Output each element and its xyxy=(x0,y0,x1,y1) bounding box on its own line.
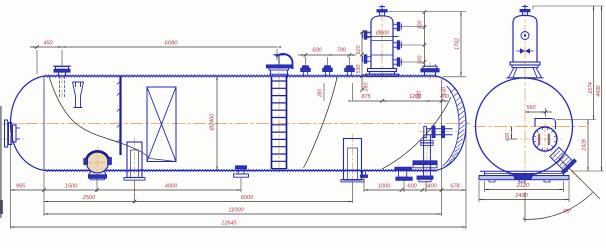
end column head xyxy=(513,15,537,22)
bottom manhole centerlines xyxy=(85,162,110,164)
centerline inclined nozzle 45deg xyxy=(545,145,580,180)
ladder rails xyxy=(271,76,273,169)
nozzle B cover xyxy=(423,66,437,69)
centerline big nozzle B xyxy=(429,62,431,82)
end manhole circle xyxy=(533,127,557,151)
saddle base plate xyxy=(479,176,569,180)
top nozzle N2 xyxy=(302,72,304,77)
svg-text:300: 300 xyxy=(418,21,424,30)
end manhole hinge xyxy=(538,134,541,145)
end column support stand xyxy=(509,68,542,78)
shell bottom hatch ticks xyxy=(46,169,437,172)
centerline sump2 xyxy=(352,134,354,184)
centerline head nozzle lower xyxy=(2,138,24,140)
dim diameter 2400 xyxy=(216,76,218,171)
ext x349 xyxy=(352,183,354,203)
centerline drain pipe right xyxy=(426,128,428,188)
svg-text:4000: 4000 xyxy=(165,184,178,190)
dim 1200 xyxy=(382,100,426,102)
wire mesh demister frame xyxy=(147,87,176,162)
column top nozzle xyxy=(379,12,381,16)
end column shell xyxy=(512,22,514,62)
end column sight glass xyxy=(521,32,529,40)
svg-text:2120: 2120 xyxy=(516,183,530,189)
dim 450 xyxy=(30,46,62,48)
centerline column vertical xyxy=(381,8,383,80)
column vent valve xyxy=(381,5,383,10)
drain pipe coupling xyxy=(421,140,433,142)
centerline head nozzle upper xyxy=(2,123,24,125)
main horizontal centerline side view xyxy=(4,123,470,125)
svg-text:11000: 11000 xyxy=(228,208,244,214)
dim row3 xyxy=(44,213,442,215)
svg-text:2490: 2490 xyxy=(514,193,528,199)
sump1 inner lining xyxy=(131,150,139,178)
vessel shell bottom line xyxy=(44,170,436,172)
ladder rungs xyxy=(272,81,287,169)
bottom manhole base xyxy=(89,175,107,178)
svg-text:45°: 45° xyxy=(563,209,572,215)
sump1 base flange xyxy=(124,178,145,181)
dim 45 vertical xyxy=(524,192,526,222)
svg-text:1200: 1200 xyxy=(409,94,421,100)
baffle plate xyxy=(119,76,121,155)
svg-text:Ø2400: Ø2400 xyxy=(210,113,216,132)
inclined nozzle body xyxy=(548,146,576,174)
dim 450-6080 extension lines xyxy=(36,50,38,74)
centerline nozzle A1 xyxy=(61,62,63,98)
shell top hatch ticks xyxy=(46,75,437,78)
manhole M neck xyxy=(270,70,272,76)
svg-text:1428: 1428 xyxy=(582,139,588,151)
outlet compartment curve xyxy=(382,97,451,169)
svg-text:1792: 1792 xyxy=(455,38,461,50)
column right nozzle R3 xyxy=(393,59,397,61)
column right nozzle R2 xyxy=(393,42,397,44)
dim 2120 xyxy=(485,189,564,191)
svg-text:Ø600: Ø600 xyxy=(375,31,389,37)
svg-text:1500: 1500 xyxy=(65,184,78,190)
dim 600 xyxy=(298,54,328,56)
inlet deflector curve xyxy=(49,77,176,162)
end column base flange xyxy=(510,62,540,65)
svg-text:400: 400 xyxy=(505,133,511,142)
svg-text:6080: 6080 xyxy=(165,41,179,47)
sump2 box xyxy=(344,139,362,181)
svg-text:4435: 4435 xyxy=(596,85,602,97)
side nozzle end flange xyxy=(424,126,427,137)
svg-text:678: 678 xyxy=(450,184,460,190)
centerline sump1 xyxy=(134,138,136,182)
dim 4435 xyxy=(601,6,603,171)
ext x240 xyxy=(240,178,242,192)
svg-text:280: 280 xyxy=(318,89,324,99)
ext x425 xyxy=(425,182,427,192)
ext x403 xyxy=(403,181,405,193)
column base flange xyxy=(368,69,397,72)
bottom manhole end-on xyxy=(513,174,533,179)
ext x44 xyxy=(43,172,45,216)
centerline end-view manhole vertical xyxy=(544,123,546,157)
centerline side nozzle right horizontal xyxy=(419,131,457,133)
ext x364 xyxy=(363,178,365,192)
drain pipe bottom flange xyxy=(417,176,433,179)
dim 875 xyxy=(353,100,383,102)
svg-text:280: 280 xyxy=(364,83,370,93)
column left nozzle L2 xyxy=(367,56,371,58)
svg-text:700: 700 xyxy=(337,48,347,54)
dim row1 left xyxy=(11,189,242,191)
dim row1 right xyxy=(364,189,466,191)
svg-text:965: 965 xyxy=(16,184,26,190)
svg-text:1674: 1674 xyxy=(588,82,594,94)
svg-text:400: 400 xyxy=(440,94,449,100)
right head xyxy=(436,76,466,171)
column internal line 2 xyxy=(371,54,393,56)
dim 1792 xyxy=(460,12,462,77)
ext x10 xyxy=(10,135,12,229)
side nozzle flange 2 xyxy=(442,126,445,138)
left head nozzle flanges xyxy=(5,120,8,147)
right head section hatch xyxy=(446,88,465,166)
top nozzle N3 xyxy=(324,72,326,77)
svg-text:6000: 6000 xyxy=(241,195,254,201)
svg-text:2500: 2500 xyxy=(82,195,96,201)
manhole M davit arm xyxy=(276,54,293,69)
column shell xyxy=(370,22,372,69)
dim 1428 xyxy=(587,120,589,172)
bottom manhole hinge cap xyxy=(87,151,109,158)
centerline end view horizontal xyxy=(473,126,586,128)
nozzle A1 internal pipe dashed xyxy=(59,76,61,97)
bottom manhole legs xyxy=(89,172,106,176)
centerline manhole ladder xyxy=(278,56,280,172)
svg-text:12645: 12645 xyxy=(221,221,237,227)
column top head xyxy=(371,16,393,23)
dim 45 leader xyxy=(559,158,600,199)
weir curve middle xyxy=(304,77,338,168)
end view shell circle xyxy=(476,78,573,175)
svg-text:560: 560 xyxy=(527,105,536,111)
svg-text:1000: 1000 xyxy=(378,184,391,190)
left head tangent weld line xyxy=(43,76,45,171)
drain pipe shell flange xyxy=(413,161,437,164)
sump1 box xyxy=(127,142,142,178)
scan edge artifact xyxy=(0,106,2,218)
right head inner wall xyxy=(443,86,459,166)
side nozzle pipe xyxy=(426,128,453,130)
dim 600-700 extensions xyxy=(305,57,307,66)
end manhole davit box xyxy=(535,119,556,130)
bottom manhole cover circle xyxy=(87,152,109,173)
ext x134 xyxy=(134,181,136,203)
ext x97 xyxy=(96,179,98,192)
side nozzle flange 1 xyxy=(432,126,435,138)
nozzle B flange xyxy=(421,69,439,72)
manhole M davit handle xyxy=(274,54,285,56)
end manhole crosshair xyxy=(534,138,556,140)
manhole M flange xyxy=(267,65,292,68)
svg-text:450: 450 xyxy=(43,41,53,47)
vessel shell top line xyxy=(44,75,436,77)
dim 875 extensions xyxy=(352,83,354,101)
end column top nozzle xyxy=(522,12,524,16)
drain pipe body xyxy=(423,135,425,176)
dim 560 xyxy=(525,111,552,113)
centerline end-view manhole horizontal xyxy=(512,138,562,140)
end column valve xyxy=(520,48,525,54)
dim column left line xyxy=(361,32,363,90)
end dims extension right xyxy=(556,119,596,121)
ext x466 xyxy=(465,130,467,229)
nozzle A1 flange xyxy=(54,69,70,72)
dim row2 xyxy=(44,201,353,203)
small drain xyxy=(362,171,364,175)
end manhole bolts xyxy=(533,127,557,151)
nozzle A1 neck xyxy=(58,72,60,76)
drain nozzle mid xyxy=(236,166,247,169)
dim row4 xyxy=(11,226,467,228)
ext x441 xyxy=(441,101,443,216)
dim column right line xyxy=(424,12,426,67)
dim 45 arc xyxy=(525,193,593,220)
sump2 base xyxy=(341,180,364,182)
sump2 inner lining xyxy=(348,148,358,180)
dim column D600 xyxy=(365,36,399,38)
column right nozzle R1 xyxy=(393,23,397,25)
dim 2490 xyxy=(479,199,569,201)
nozzle B neck xyxy=(424,72,426,76)
end dims extension top xyxy=(532,6,534,10)
dim 400 end view xyxy=(511,127,513,140)
svg-text:400: 400 xyxy=(427,184,437,190)
saddle feet xyxy=(489,180,550,182)
svg-text:600: 600 xyxy=(407,184,417,190)
saddle web xyxy=(484,171,486,175)
svg-text:600: 600 xyxy=(312,48,322,54)
left head xyxy=(11,76,45,171)
svg-text:620: 620 xyxy=(356,46,362,55)
top nozzle N4 xyxy=(346,72,348,77)
centerline end view vertical xyxy=(524,4,526,189)
dim 1674 xyxy=(593,6,595,120)
column left nozzle L1 xyxy=(367,32,371,34)
inlet funnel xyxy=(73,82,84,108)
svg-text:875: 875 xyxy=(362,94,372,100)
column internal line 1 xyxy=(371,40,393,42)
bottom manhole side lugs xyxy=(84,159,88,165)
dim 6080 xyxy=(62,46,277,48)
wire mesh demister cross xyxy=(147,87,176,162)
dim 400 top xyxy=(426,100,449,102)
dim 700 xyxy=(328,54,357,56)
bottom nozzle right xyxy=(395,167,412,170)
manhole M cover xyxy=(269,68,289,70)
svg-text:530: 530 xyxy=(356,65,362,74)
svg-text:300: 300 xyxy=(418,56,424,65)
